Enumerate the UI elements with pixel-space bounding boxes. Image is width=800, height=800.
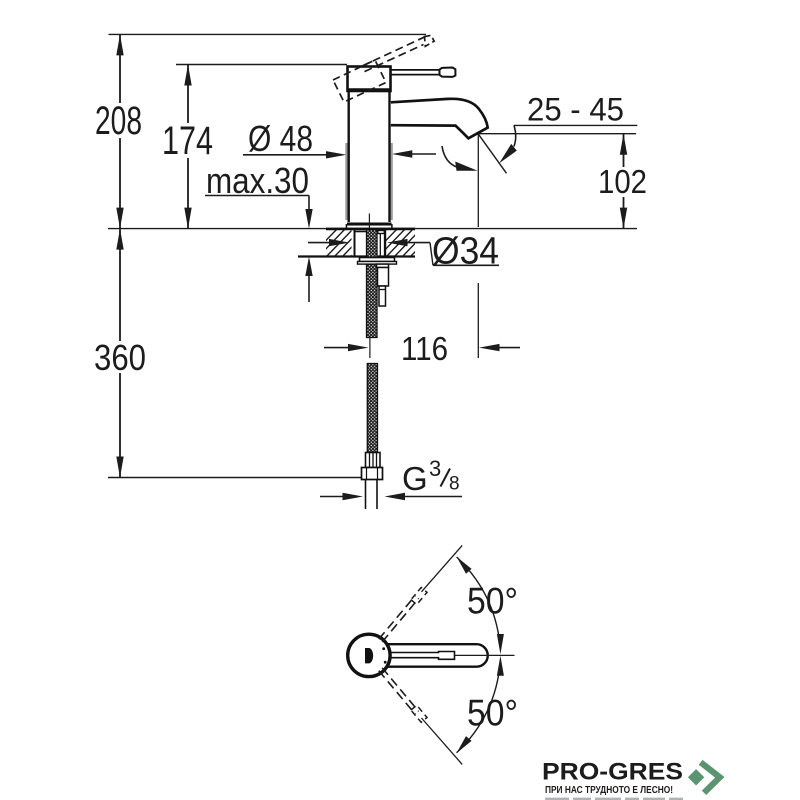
svg-text:PRO-GRES: PRO-GRES [542, 759, 683, 786]
wire spout tip extension line upper [477, 134, 479, 228]
top view body circle [348, 634, 390, 676]
hose nut G3/8 [362, 468, 383, 480]
deck bottom line [298, 255, 415, 257]
handle tip [440, 68, 456, 77]
diagonal aerator line [478, 134, 506, 173]
svg-text:ПРИ НАС ТРУДНОТО Е ЛЕСНО!: ПРИ НАС ТРУДНОТО Е ЛЕСНО! [545, 785, 673, 796]
svg-text:102: 102 [598, 163, 647, 200]
braided hose upper [367, 230, 378, 338]
braided hose lower [367, 364, 377, 453]
faucet base flange [346, 225, 392, 229]
faucet body [348, 91, 350, 222]
top view handle capsule [382, 644, 488, 667]
dashed handle raised rod [362, 36, 427, 66]
dimension 174 line [187, 65, 189, 124]
wire spout outlet level line [479, 133, 637, 135]
washer under deck [360, 258, 395, 262]
dimension 208 line [119, 34, 121, 103]
deck top bold line [326, 228, 415, 231]
wire bottom reference line (360 bottom) [108, 477, 362, 479]
connection pipe [365, 480, 367, 510]
inner pipe lines in hole [379, 234, 381, 258]
faucet body shadow strips [345, 143, 347, 220]
logo cut text strip [545, 798, 683, 800]
dimension 360 line [119, 229, 121, 341]
hose connector stepped [377, 264, 389, 267]
hose end ribbed connector [366, 453, 381, 468]
wire top reference line (208 top) [109, 33, 427, 35]
svg-text:208: 208 [95, 99, 142, 143]
dimension G3/8 arrows [320, 496, 344, 498]
extension line lower [422, 718, 463, 764]
extension line upper [422, 545, 463, 591]
top view screw dots [382, 647, 385, 650]
top view axis line through capsule [455, 654, 515, 656]
logo chevron [701, 762, 720, 793]
dimension 116 arrows [324, 347, 350, 349]
deck hatch right [370, 228, 438, 257]
svg-text:50°: 50° [467, 693, 518, 734]
dashed lever upper position [382, 598, 419, 642]
deck hatch left [310, 228, 378, 257]
dashed lever lower position [382, 668, 419, 712]
flow arc arrow [442, 146, 458, 168]
wire deck reference line [108, 228, 637, 230]
wire 174 top reference line [176, 64, 347, 66]
spout [391, 99, 488, 139]
svg-text:3: 3 [429, 456, 441, 481]
svg-text:G: G [402, 460, 428, 497]
arrow max.30 lower [308, 275, 310, 302]
top view handle inner [386, 652, 455, 660]
shank walls in deck hole [354, 229, 356, 257]
handle rod [391, 69, 441, 71]
faucet centerline [368, 214, 370, 257]
faucet body bottom line [347, 223, 392, 225]
svg-text:360: 360 [94, 337, 146, 378]
svg-text:116: 116 [401, 330, 448, 367]
logo diamond [688, 769, 704, 785]
svg-text:25 - 45: 25 - 45 [527, 92, 624, 128]
svg-text:174: 174 [162, 119, 213, 163]
shank inner step right [378, 231, 385, 234]
svg-text:50°: 50° [467, 581, 518, 622]
shank inner step left [355, 231, 369, 233]
wire spout tip extension line lower [477, 283, 479, 358]
hose centerline gap [369, 338, 371, 359]
svg-text:Ø34: Ø34 [432, 231, 499, 273]
svg-text:Ø 48: Ø 48 [248, 118, 313, 159]
dimension 102 line [623, 134, 625, 167]
svg-text:8: 8 [449, 474, 460, 495]
leader arrow 25-45 [514, 125, 516, 146]
dashed handle lowered rectangle [333, 60, 386, 102]
top view cartridge D mark [365, 648, 373, 663]
dashed handle raised tip [425, 35, 435, 46]
faucet cap [348, 67, 391, 92]
label Ø34 with arrows [308, 242, 331, 244]
angle arc upper [457, 557, 501, 649]
angle arc lower [457, 661, 501, 753]
